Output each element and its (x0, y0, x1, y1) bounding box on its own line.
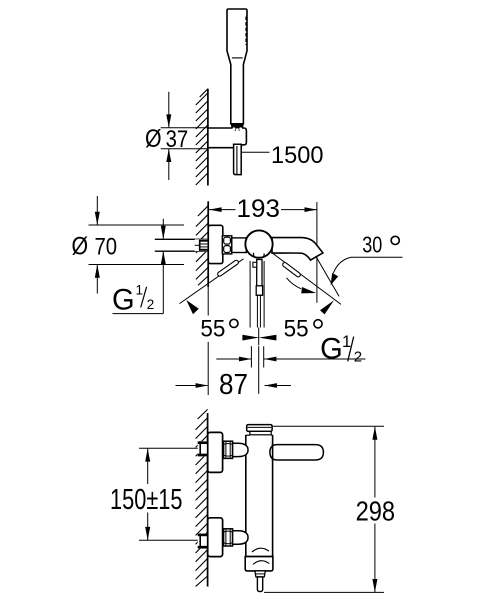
30° leader line + arc arrow (351, 256, 403, 258)
wall hatching (middle) (196, 206, 208, 286)
svg-text:37: 37 (166, 126, 189, 153)
connecting cylinder (232, 238, 247, 253)
faucet body (vertical) (245, 435, 247, 445)
svg-text:55: 55 (200, 315, 225, 342)
svg-text:150±15: 150±15 (110, 484, 183, 516)
svg-text:G: G (320, 332, 343, 365)
right ghost lever (282, 262, 301, 278)
wall holder bracket (208, 128, 247, 148)
dim Ø70 dimension line + arrows (96, 196, 98, 225)
svg-text:298: 298 (356, 495, 396, 526)
leader line 1500 (242, 151, 270, 153)
union hex in wall (top inlet) (198, 441, 208, 456)
dim 87 dimension line + arrows (176, 385, 208, 387)
lever pointing forward (down) (250, 260, 264, 328)
escutcheon (top inlet) (208, 432, 223, 472)
svg-text:Ø: Ø (145, 125, 162, 153)
svg-text:70: 70 (95, 233, 118, 260)
spout (top view) (272, 238, 323, 261)
escutcheon (middle, wall flange) (208, 225, 223, 263)
dim G1/2 (bottom) leader + arrows (216, 358, 251, 360)
lever centre line (258, 328, 260, 346)
extension line at spout tip (193) (316, 202, 318, 303)
lever pivot ticks (252, 253, 255, 257)
outlet piece (255, 571, 265, 577)
saddle arc above outlet (252, 548, 269, 552)
seam line on shower handle (232, 57, 243, 59)
svg-text:2: 2 (354, 348, 362, 365)
svg-text:1: 1 (342, 333, 351, 351)
wall line (middle) (207, 201, 209, 287)
dim Ø70 extension lines (89, 224, 185, 226)
dim G1/2 (left) arrows (162, 219, 164, 239)
cone connector (top inlet) (233, 443, 248, 456)
svg-text:87: 87 (219, 369, 248, 401)
left 55° arrowhead (186, 300, 199, 314)
cone connector (bottom inlet) (233, 531, 248, 544)
dim 150±15 extension lines (139, 447, 198, 449)
dim 193 dimension line (209, 209, 236, 211)
svg-text:Ø: Ø (72, 232, 89, 260)
dim 298 extension lines (273, 425, 384, 427)
30° angle double arrow (320, 300, 334, 314)
lever handle (side view) (270, 445, 324, 460)
label G 1/2 (left) with leader box (162, 277, 164, 314)
left ghost lever (217, 259, 239, 276)
svg-text:55: 55 (284, 315, 309, 342)
shower spray end (knurled tip) in holder (231, 123, 244, 131)
svg-text:2: 2 (147, 297, 155, 312)
shower outlet nipple (257, 577, 262, 592)
union hex in wall (bottom inlet) (198, 533, 208, 548)
svg-text:30: 30 (362, 231, 382, 257)
wall line (top) (207, 89, 209, 186)
short extension lines for G1/2 outlet (250, 346, 252, 367)
union hex in wall (195, 239, 209, 251)
wall extension line (87) (207, 287, 209, 315)
wall line (bottom) (207, 413, 209, 587)
right 55° arc + arrowhead (287, 278, 302, 289)
escutcheon (bottom inlet) (208, 518, 223, 557)
left 55° swing line (180, 259, 244, 304)
union nut (top view) (222, 236, 232, 254)
dim 298 dimension line + arrows (374, 427, 376, 498)
right 55° swing line (273, 253, 341, 304)
supply pipe into wall (155, 239, 208, 251)
joint line body/cup (245, 556, 273, 558)
wall hatching (top) (196, 89, 208, 185)
svg-text:193: 193 (237, 195, 281, 223)
union nut (top inlet) (224, 441, 233, 458)
dim Ø37 extension lines (161, 127, 209, 129)
bottom cup (245, 557, 273, 571)
small double arrow at lever centre (242, 335, 259, 341)
shower hose stub below holder (234, 144, 242, 174)
30° swing line from spout (316, 257, 339, 296)
cartridge cap (247, 425, 272, 432)
svg-text:1500: 1500 (271, 142, 324, 169)
svg-text:1: 1 (136, 283, 144, 298)
hand shower head + handle (227, 9, 247, 124)
union nut (bottom inlet) (224, 529, 233, 546)
cartridge circle (top view) (245, 230, 272, 257)
dim 150±15 dimension line + arrows (147, 449, 149, 484)
svg-text:G: G (112, 284, 135, 317)
wall hatching (bottom) (196, 409, 208, 586)
spray face dashes on head (245, 17, 247, 46)
dim Ø37 dimension line + arrows (168, 92, 170, 128)
